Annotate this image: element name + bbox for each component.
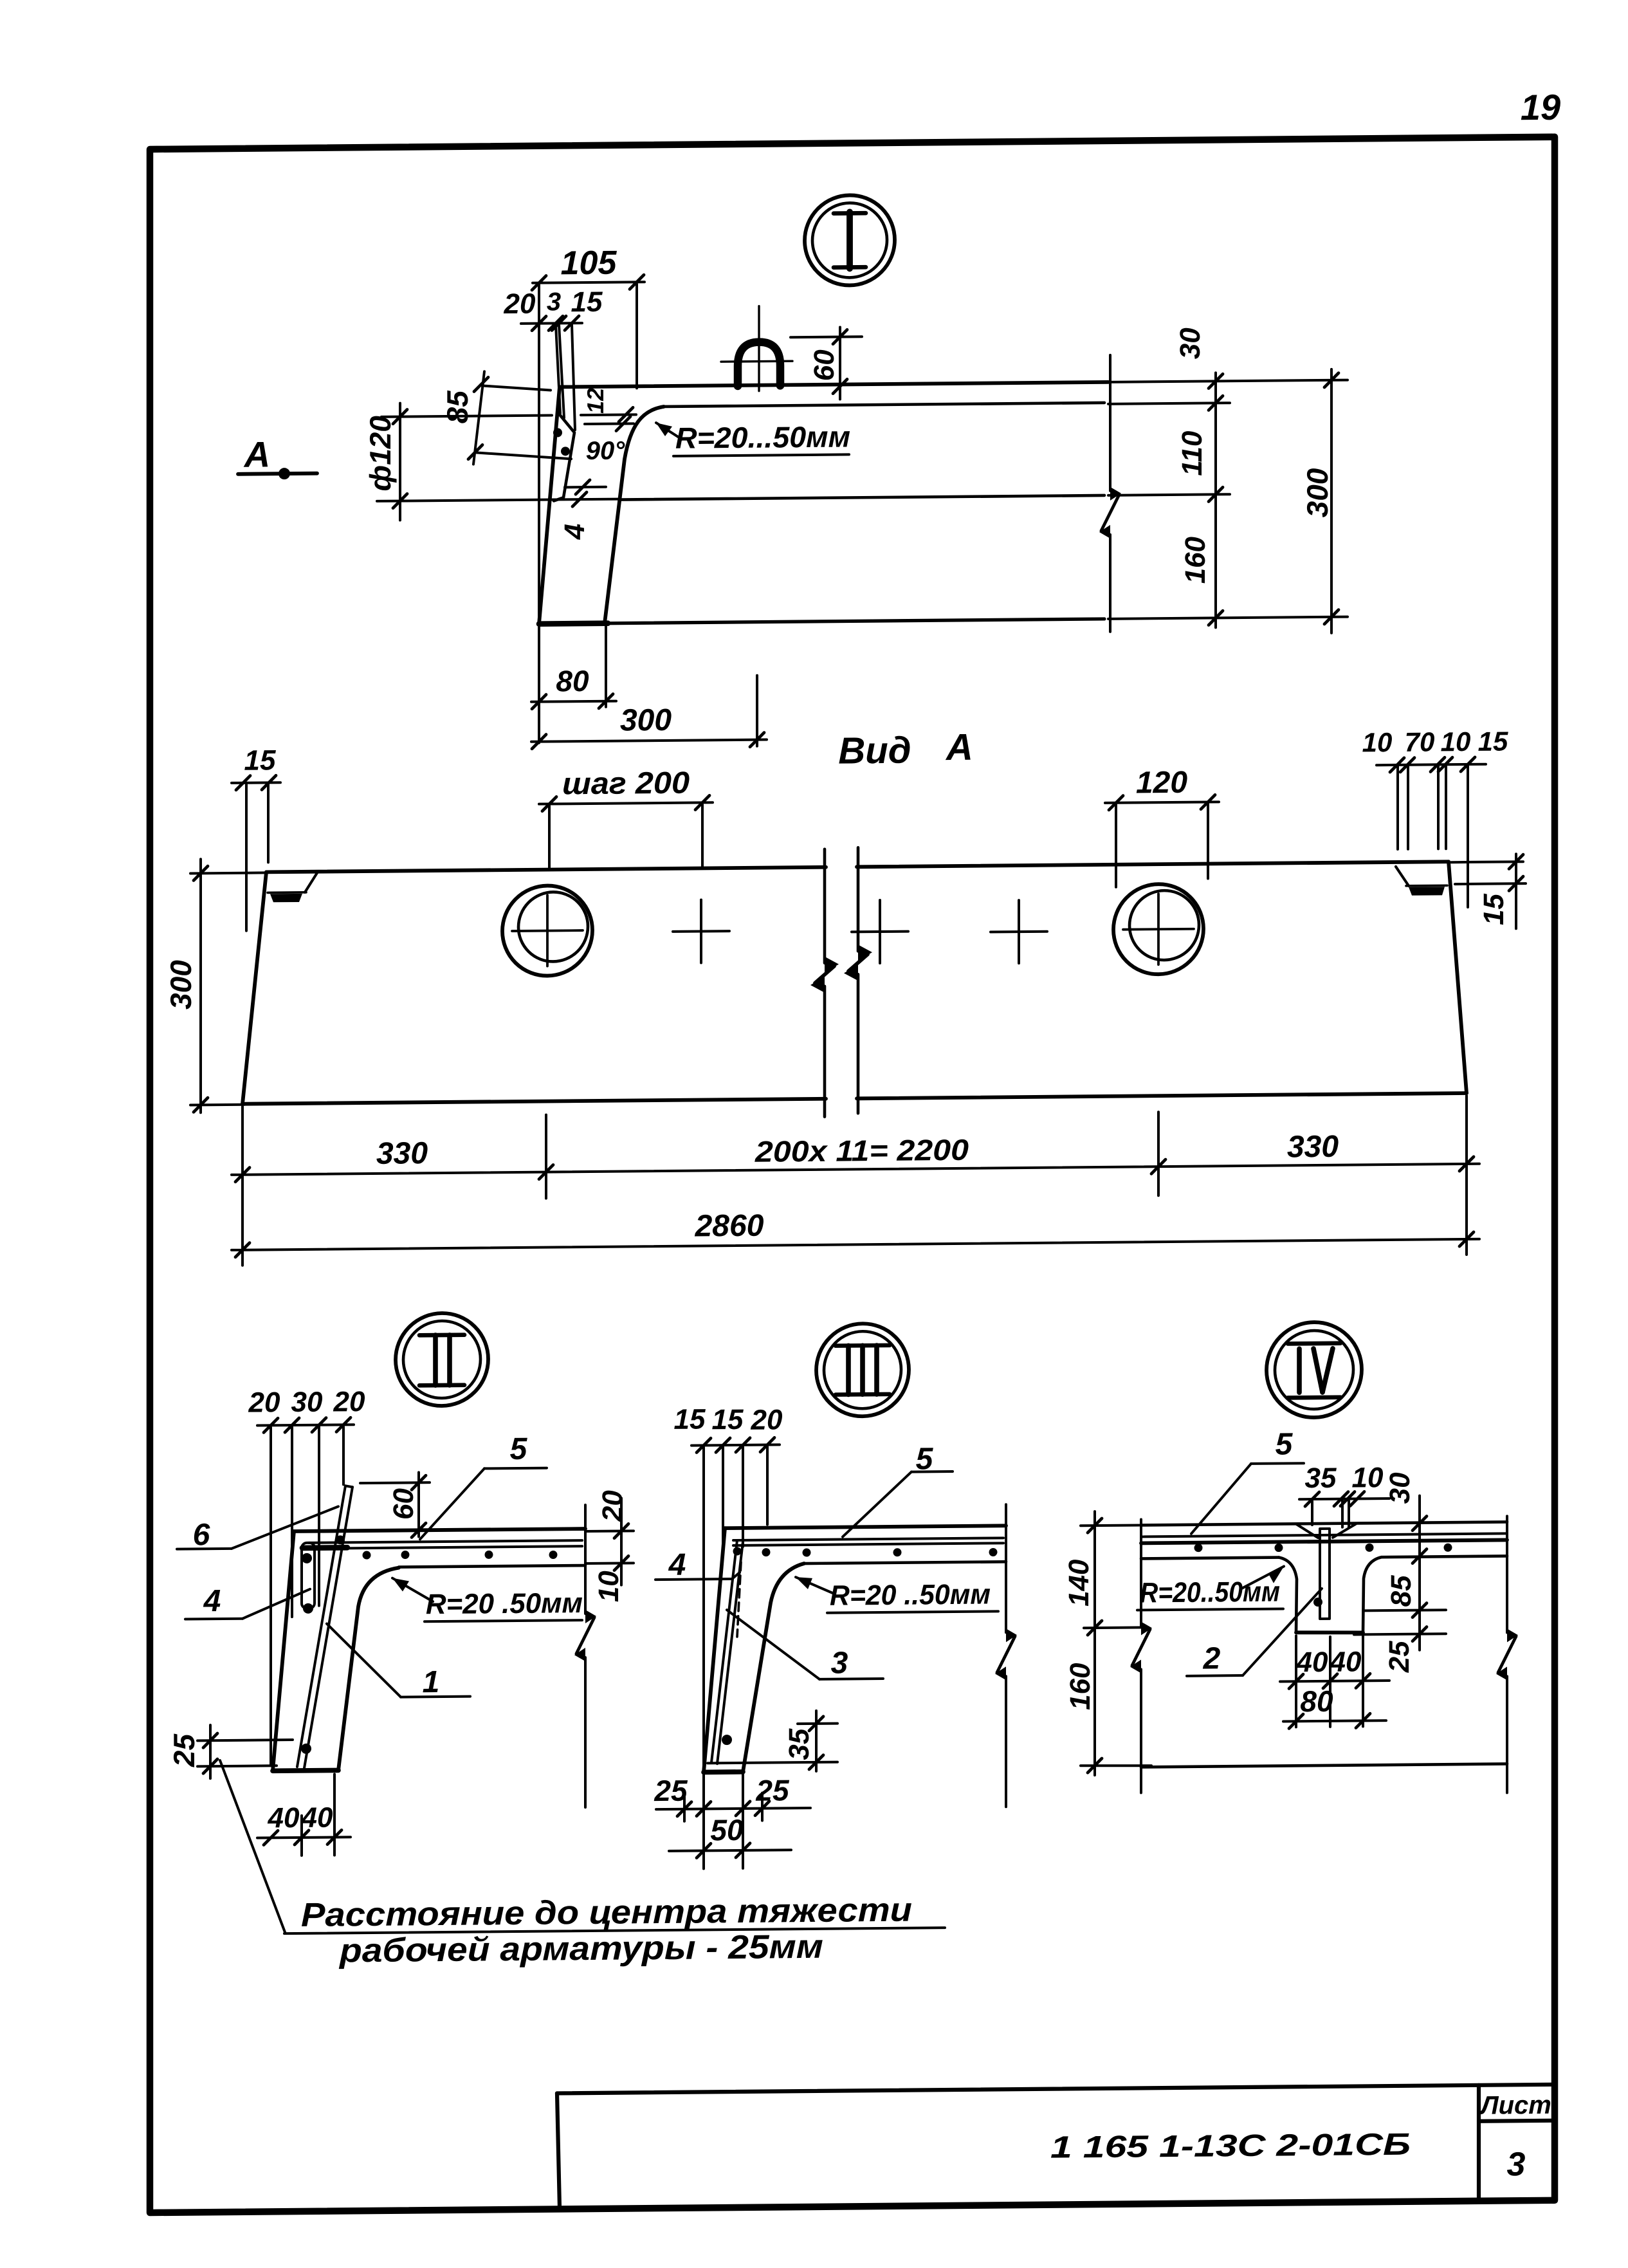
svg-text:90°: 90°	[586, 436, 625, 465]
svg-text:25: 25	[167, 1733, 201, 1767]
svg-text:85: 85	[1386, 1575, 1417, 1607]
svg-text:19: 19	[1521, 87, 1560, 128]
svg-text:А: А	[243, 434, 270, 474]
svg-text:35: 35	[1305, 1462, 1337, 1494]
svg-text:110: 110	[1176, 430, 1208, 476]
svg-text:3: 3	[1507, 2146, 1526, 2183]
svg-text:25: 25	[654, 1774, 688, 1807]
svg-text:10: 10	[593, 1571, 625, 1603]
svg-text:15: 15	[1478, 893, 1510, 925]
svg-text:140: 140	[1063, 1559, 1095, 1607]
svg-text:4: 4	[668, 1548, 686, 1582]
svg-text:300: 300	[164, 960, 197, 1010]
svg-text:20: 20	[751, 1404, 783, 1435]
svg-text:1 165 1-13C 2-01СБ: 1 165 1-13C 2-01СБ	[1050, 2128, 1411, 2165]
svg-text:30: 30	[1175, 327, 1206, 360]
svg-text:4: 4	[559, 524, 590, 540]
svg-text:50: 50	[710, 1813, 744, 1847]
svg-text:60: 60	[809, 349, 840, 382]
svg-text:35: 35	[783, 1728, 815, 1760]
svg-text:40: 40	[268, 1802, 300, 1834]
svg-text:80: 80	[1300, 1684, 1333, 1718]
svg-text:20: 20	[333, 1386, 365, 1417]
svg-text:20: 20	[248, 1387, 280, 1418]
svg-text:20: 20	[597, 1489, 628, 1522]
svg-text:15: 15	[1478, 726, 1508, 756]
svg-text:300: 300	[620, 703, 672, 738]
svg-text:10: 10	[1362, 727, 1393, 757]
svg-text:10: 10	[1352, 1462, 1384, 1493]
svg-text:рабочей арматуры - 25мм: рабочей арматуры - 25мм	[338, 1928, 823, 1970]
svg-text:1: 1	[423, 1665, 440, 1699]
svg-text:40: 40	[1330, 1646, 1362, 1677]
svg-text:160: 160	[1180, 536, 1211, 584]
svg-text:6: 6	[193, 1518, 210, 1552]
svg-text:3: 3	[547, 288, 561, 316]
svg-text:30: 30	[1384, 1472, 1416, 1504]
svg-text:15: 15	[571, 286, 603, 318]
svg-text:20: 20	[504, 288, 536, 320]
svg-text:4: 4	[203, 1584, 221, 1618]
svg-text:Лист: Лист	[1479, 2091, 1551, 2120]
svg-text:А: А	[945, 726, 973, 768]
svg-text:R=20 ..50мм: R=20 ..50мм	[830, 1578, 991, 1611]
svg-text:10: 10	[1441, 726, 1471, 757]
svg-text:200x 11= 2200: 200x 11= 2200	[755, 1133, 969, 1168]
svg-text:R=20 .50мм: R=20 .50мм	[426, 1587, 583, 1620]
svg-text:300: 300	[1301, 468, 1334, 518]
svg-text:2: 2	[1203, 1641, 1221, 1675]
svg-text:85: 85	[441, 390, 474, 424]
svg-text:30: 30	[291, 1387, 323, 1418]
svg-text:2860: 2860	[695, 1209, 764, 1244]
svg-text:3: 3	[831, 1646, 848, 1680]
svg-text:25: 25	[1384, 1641, 1415, 1673]
svg-text:80: 80	[556, 664, 589, 697]
svg-text:ф120: ф120	[363, 415, 397, 491]
svg-text:120: 120	[1136, 766, 1187, 800]
svg-text:R=20...50мм: R=20...50мм	[675, 419, 850, 454]
svg-text:Вид: Вид	[838, 730, 911, 772]
svg-text:330: 330	[376, 1136, 428, 1171]
svg-text:60: 60	[388, 1488, 419, 1520]
svg-text:5: 5	[1276, 1427, 1294, 1461]
svg-text:15: 15	[712, 1404, 744, 1435]
svg-text:12: 12	[582, 388, 608, 414]
svg-text:шаг 200: шаг 200	[562, 766, 690, 802]
svg-text:330: 330	[1287, 1130, 1339, 1165]
svg-text:15: 15	[244, 744, 276, 776]
svg-text:40: 40	[301, 1802, 333, 1833]
svg-text:40: 40	[1296, 1646, 1328, 1678]
svg-text:5: 5	[510, 1432, 528, 1466]
svg-text:105: 105	[561, 244, 617, 282]
svg-text:25: 25	[755, 1773, 790, 1807]
svg-text:15: 15	[674, 1403, 706, 1435]
svg-text:R=20..50мм: R=20..50мм	[1140, 1576, 1280, 1609]
svg-text:70: 70	[1405, 726, 1435, 757]
svg-text:160: 160	[1065, 1663, 1096, 1710]
